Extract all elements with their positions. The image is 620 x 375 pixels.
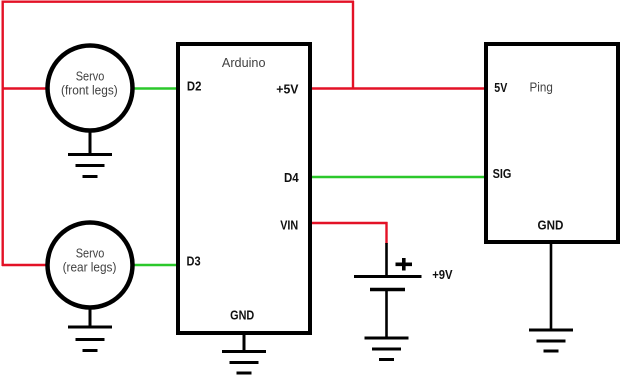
svg-text:D4: D4 bbox=[284, 170, 299, 185]
svg-text:5V: 5V bbox=[494, 80, 507, 95]
wire red left vertical rail bbox=[2, 1, 4, 267]
wire black battery negative lead bbox=[385, 290, 388, 339]
wire red VIN horizontal bbox=[310, 222, 388, 224]
svg-text:Arduino: Arduino bbox=[222, 55, 266, 70]
wire red feed to rear servo bbox=[2, 264, 47, 266]
label: Servo (rear legs) bbox=[63, 246, 117, 275]
wire green D4 to SIG bbox=[310, 176, 486, 178]
svg-text:SIG: SIG bbox=[493, 166, 512, 181]
svg-text:GND: GND bbox=[538, 218, 564, 233]
servo M1 (front legs) bbox=[48, 46, 133, 131]
battery positive plate bbox=[354, 275, 422, 278]
label: Servo (front legs) bbox=[61, 69, 118, 98]
battery plus sign bbox=[396, 262, 413, 266]
wire green front servo to D2 bbox=[133, 87, 178, 89]
battery negative plate bbox=[370, 288, 405, 291]
ground GND2 (rear servo) bbox=[68, 307, 112, 351]
ground GND3 (Arduino) bbox=[222, 334, 266, 373]
wire red feed to front servo bbox=[2, 87, 47, 89]
IC U1 Arduino bbox=[178, 44, 310, 333]
svg-text:GND: GND bbox=[230, 307, 254, 322]
svg-text:Ping: Ping bbox=[530, 80, 553, 95]
wire green rear servo to D3 bbox=[133, 264, 178, 266]
servo M2 (rear legs) bbox=[48, 223, 133, 308]
wire black battery positive lead bbox=[385, 243, 388, 276]
svg-text:D3: D3 bbox=[187, 254, 201, 269]
ground GND5 (battery) bbox=[365, 338, 409, 360]
sensor U2 Ping bbox=[486, 44, 618, 242]
svg-text:Servo: Servo bbox=[76, 69, 105, 84]
svg-text:(front legs): (front legs) bbox=[61, 83, 118, 98]
battery BT1 9V bbox=[354, 243, 422, 338]
wire red top horizontal rail bbox=[2, 1, 355, 3]
ground GND1 (front servo) bbox=[68, 130, 112, 177]
svg-text:D2: D2 bbox=[187, 78, 202, 93]
wire red vertical drop to +5V net bbox=[352, 1, 354, 89]
wire red VIN drop toward battery bbox=[385, 222, 387, 244]
wire black Ping GND lead bbox=[550, 243, 553, 330]
wire red +5V Arduino to Ping 5V bbox=[310, 87, 486, 89]
svg-text:(rear legs): (rear legs) bbox=[63, 260, 117, 275]
svg-text:+9V: +9V bbox=[432, 267, 453, 282]
ground GND4 (Ping) bbox=[529, 330, 573, 351]
svg-text:VIN: VIN bbox=[280, 218, 298, 233]
svg-text:+5V: +5V bbox=[276, 82, 299, 97]
svg-text:Servo: Servo bbox=[76, 246, 105, 261]
